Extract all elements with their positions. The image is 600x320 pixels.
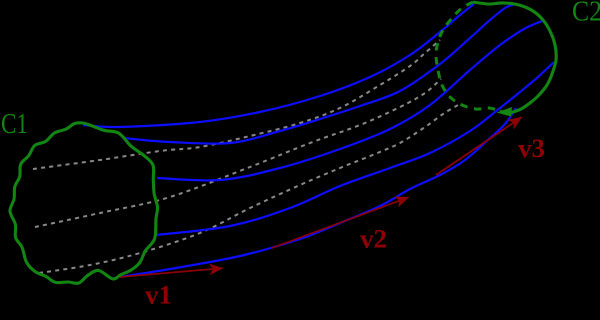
curve C2 back arc (green dashed) <box>436 2 500 111</box>
hidden streamline G1 (gray dashed) <box>33 40 440 169</box>
streamline B2 (blue) <box>123 5 513 144</box>
streamline B3 (blue) <box>157 21 542 180</box>
velocity arrow v1 <box>120 268 223 277</box>
svg-text:v1: v1 <box>145 281 172 310</box>
hidden streamline G2 (gray dashed) <box>35 79 441 227</box>
hidden streamline G3 (gray dashed) <box>39 105 458 273</box>
C2 orientation arrowhead <box>497 107 513 117</box>
svg-text:v3: v3 <box>518 134 545 163</box>
streamline B5 (blue, bottom) <box>120 108 516 277</box>
curve C1 (green wobbly loop) <box>10 123 158 284</box>
streamline B1 (blue, top) <box>83 4 474 127</box>
svg-text:v2: v2 <box>360 225 387 254</box>
svg-text:C1: C1 <box>1 108 28 140</box>
curve C2 front arc (green solid) <box>473 2 556 113</box>
streamline B4 (blue) <box>156 62 554 235</box>
svg-text:C2: C2 <box>572 0 600 28</box>
velocity arrow v2 <box>272 197 409 248</box>
velocity arrow v3 <box>436 117 522 175</box>
